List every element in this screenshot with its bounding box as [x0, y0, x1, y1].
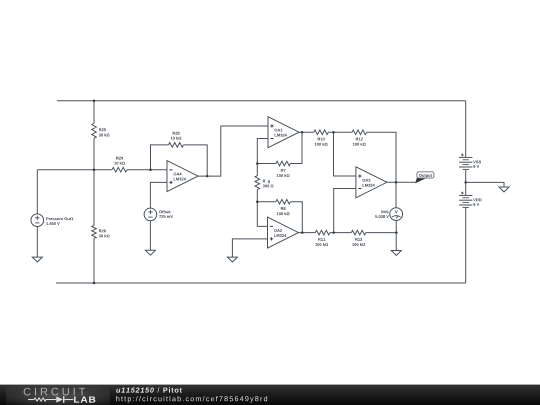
- op-amp OA2: [268, 217, 299, 248]
- wire R_g leads: [256, 164, 258, 202]
- wire VSS-VDD mid lead: [465, 170, 467, 196]
- wire R28 feedback loop: [151, 145, 208, 176]
- resistor R7: [276, 161, 291, 166]
- resistor R13: [351, 230, 366, 235]
- junction dots: [93, 99, 96, 102]
- label R_g 300: [263, 180, 266, 183]
- label R12 100k: [356, 138, 359, 141]
- label R8 100k: [281, 207, 284, 210]
- battery VDD: [459, 194, 472, 196]
- resistor R28: [169, 143, 184, 148]
- node flag Output: [415, 177, 426, 184]
- resistor R29: [112, 167, 127, 172]
- wire OA2 inverting lead: [257, 202, 267, 227]
- op-amp OA4: [167, 161, 198, 192]
- wire OA1 output row R10 R12: [299, 132, 396, 182]
- resistor R12: [352, 130, 367, 135]
- label VDD 9V: [473, 199, 476, 202]
- wire R7 feedback: [257, 132, 302, 163]
- footer bar: [0, 385, 540, 405]
- label R29 10k: [116, 157, 119, 160]
- wire OA3 noninverting lead: [334, 132, 356, 176]
- wire bottom supply rail: [56, 282, 466, 284]
- footer title u1152150 / Pitot: [116, 389, 120, 393]
- ground offset source: [145, 250, 155, 255]
- label R11 100k: [318, 238, 321, 241]
- wire OA3 output to flag: [387, 181, 416, 183]
- wire mid-supply to ground: [466, 182, 504, 187]
- label Pressure Out1: [46, 217, 48, 220]
- resistor R_g: [255, 176, 260, 190]
- op-amp OA3: [356, 167, 387, 198]
- logo resistor squiggle: [34, 398, 56, 401]
- voltage source Offset: [144, 208, 157, 221]
- label R28 10k: [173, 132, 176, 135]
- wire VDD bottom lead: [465, 207, 467, 283]
- wire OA3 inverting lead: [334, 189, 356, 233]
- wire pressure source leads: [36, 170, 38, 257]
- ground OA2 noninverting: [227, 257, 237, 262]
- CircuitLab logo text CIRCUIT: [24, 388, 31, 396]
- wire VM1 leads: [395, 182, 397, 250]
- wire R26 branch: [93, 170, 95, 283]
- wire R8 feedback: [257, 202, 302, 233]
- label Offset 725mV: [159, 210, 162, 213]
- wire R29 to OA4 inverting input: [127, 169, 167, 171]
- resistor R11: [315, 230, 330, 235]
- footer url: [116, 396, 119, 401]
- wire VSS top lead: [465, 101, 467, 158]
- wire OA2 output row R11 R13: [299, 232, 397, 234]
- voltmeter VM1: [390, 208, 403, 221]
- resistor R25: [92, 123, 97, 138]
- logo text LAB: [74, 397, 95, 403]
- wire input row to R29: [37, 169, 112, 171]
- ground pressure source: [32, 257, 42, 262]
- wire OA2 noninverting to ground: [232, 239, 267, 257]
- wire OA4 output to OA1 noninverting: [198, 126, 268, 176]
- label R7 100k: [281, 169, 284, 172]
- wire OA4 noninverting to offset source: [150, 182, 167, 250]
- label R25 30k: [99, 128, 102, 131]
- label R10 100k: [318, 138, 321, 141]
- logo wire lead: [28, 399, 34, 401]
- wire OA1 inverting lead: [257, 138, 268, 163]
- ground VM1: [391, 251, 401, 256]
- label VM1 5.038V: [381, 210, 384, 213]
- op-amp OA1: [268, 117, 299, 148]
- wire top supply rail: [57, 100, 466, 102]
- voltage source Pressure Out1: [31, 214, 44, 227]
- label VSS 9V: [473, 161, 476, 164]
- resistor R8: [276, 199, 291, 204]
- resistor R10: [314, 130, 329, 135]
- battery VSS: [459, 156, 472, 158]
- wire R25 branch: [93, 101, 95, 170]
- resistor R26: [92, 225, 97, 238]
- ground supply mid: [499, 187, 509, 192]
- logo diode: [56, 396, 63, 402]
- label R13 100k: [355, 238, 358, 241]
- label R26 30k: [99, 230, 102, 233]
